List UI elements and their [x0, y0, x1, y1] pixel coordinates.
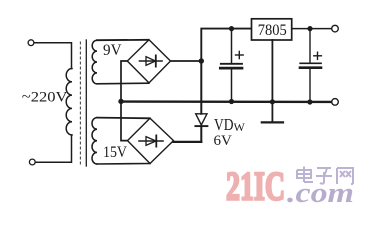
svg-text:21IC: 21IC: [226, 164, 285, 209]
svg-text:9V: 9V: [103, 42, 122, 59]
wire: [97, 39, 149, 41]
node junction: [307, 99, 312, 104]
diode inside bridge 2: [139, 135, 163, 146]
secondary winding 15V: [92, 118, 97, 164]
input terminal top: [28, 40, 34, 46]
wire: [97, 117, 150, 120]
node junction: [229, 26, 234, 31]
svg-text:6V: 6V: [214, 133, 233, 149]
子: [316, 168, 332, 184]
transformer core: [80, 40, 86, 166]
node junction: [199, 58, 204, 63]
wire: [34, 43, 71, 69]
wire regulator ground pin: [271, 40, 273, 122]
ground: [262, 121, 283, 123]
ground rail: [121, 100, 332, 103]
svg-text:VDW: VDW: [214, 115, 246, 134]
电: [297, 167, 313, 183]
svg-text:7805: 7805: [258, 22, 287, 39]
svg-text:~220V: ~220V: [22, 90, 68, 106]
wire up to regulator input: [201, 29, 251, 61]
bridge rectifier 1: [127, 40, 170, 83]
diode inside bridge 1: [140, 55, 163, 66]
capacitor C2: [300, 29, 321, 102]
svg-text:15V: 15V: [103, 144, 127, 161]
watermark 21IC logo: [226, 164, 354, 210]
node junction: [307, 26, 312, 31]
transformer primary winding: [66, 69, 72, 136]
wire bridge1 minus to ground rail: [121, 61, 128, 141]
node junction: [118, 99, 123, 104]
wire zener to bridge2 plus: [174, 141, 202, 143]
wire regulator output: [292, 28, 332, 30]
node junction: [270, 99, 275, 104]
zener diode VDw: [195, 61, 207, 142]
wire: [35, 135, 71, 162]
wire: [97, 163, 150, 166]
node junction: [229, 99, 234, 104]
wire: [97, 82, 149, 85]
watermark 电子网: [297, 167, 353, 185]
网: [337, 168, 353, 184]
input terminal bottom: [29, 159, 35, 165]
wire bridge1 plus output: [171, 60, 202, 62]
capacitor C1: [220, 29, 243, 102]
output terminal top: [332, 25, 339, 32]
secondary winding 9V: [92, 40, 97, 84]
regulator U1 7805: [252, 19, 292, 40]
output terminal bottom: [332, 99, 339, 106]
bridge rectifier 2: [128, 118, 174, 163]
